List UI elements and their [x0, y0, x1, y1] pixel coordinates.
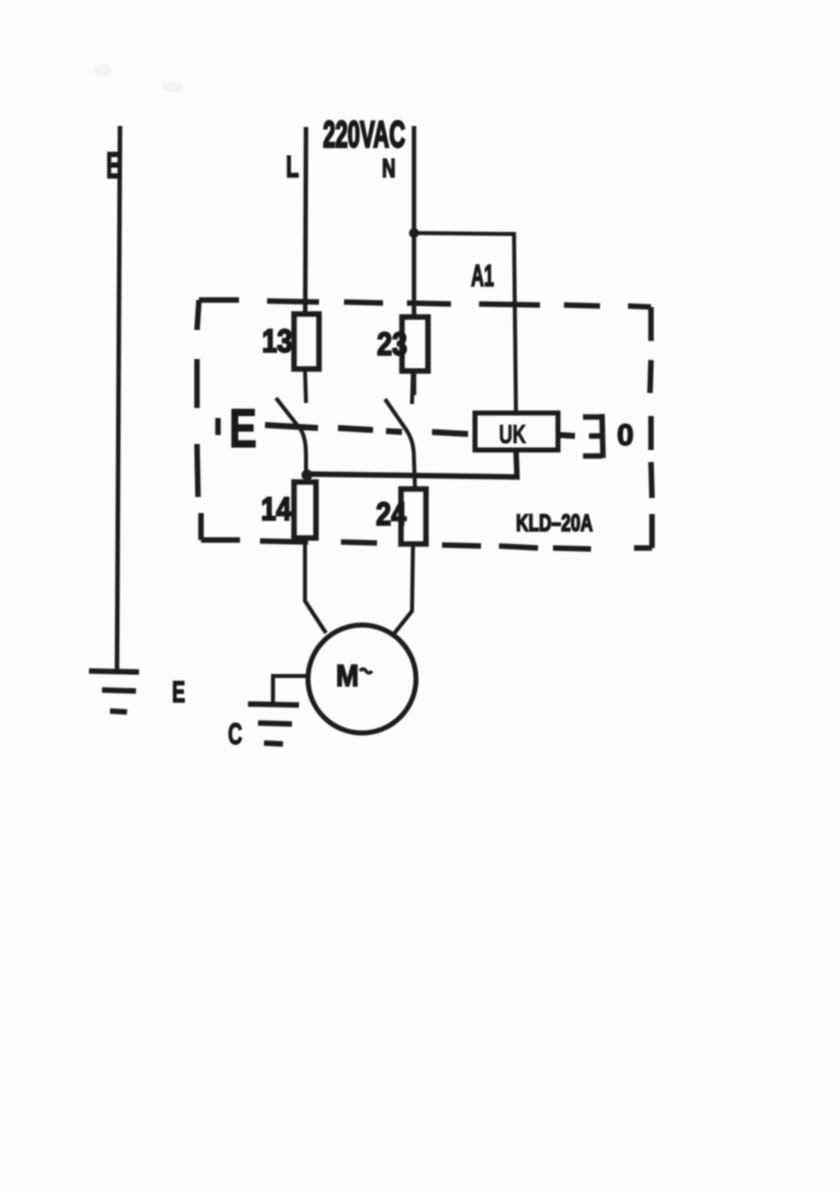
enclosure: KLD-20A dashed box, top edge [199, 300, 651, 307]
linkage dash 5 [560, 435, 575, 436]
enclosure: dashed box, bottom edge [201, 540, 652, 549]
svg-text:E: E [172, 676, 185, 709]
linkage dash 4 [432, 432, 468, 434]
switch pole 2: fixed stub [412, 371, 413, 404]
wire: N junction to coil A1 [414, 233, 516, 414]
enclosure: dashed box, left edge [197, 300, 201, 540]
svg-text:M: M [336, 659, 359, 693]
switch pole 1: fixed stub [305, 369, 306, 403]
svg-text:14: 14 [261, 492, 292, 528]
node: N junction [409, 228, 419, 238]
terminal 24 [401, 489, 426, 544]
tilde mark [360, 669, 372, 673]
svg-text:C: C [228, 718, 242, 751]
wire: motor frame to ground [273, 676, 308, 703]
svg-text:N: N [382, 153, 396, 183]
svg-text:13: 13 [262, 324, 292, 360]
wire: terminal 24 to motor [393, 544, 413, 635]
terminal 13 [294, 314, 319, 369]
wire N (neutral) [412, 126, 417, 395]
ground (motor earth symbol) [248, 704, 299, 744]
svg-text:A1: A1 [471, 259, 494, 293]
actuator tick (linkage start) [215, 418, 221, 435]
terminal bracket (reset contact) [583, 414, 603, 458]
switch pole 1: blade [276, 398, 306, 482]
svg-text:L: L [286, 149, 299, 184]
linkage dash 3 [386, 431, 402, 432]
svg-text:KLD–20A: KLD–20A [516, 510, 593, 536]
ground (left earth symbol) [89, 671, 139, 712]
svg-text:23: 23 [377, 327, 407, 363]
wire: terminal 14 to motor [305, 538, 326, 633]
wire: earth conductor E (left vertical) [117, 126, 120, 671]
svg-text:220VAC: 220VAC [323, 114, 405, 155]
terminal 23 [402, 317, 428, 371]
svg-text:UK: UK [499, 419, 527, 449]
terminal 14 [294, 482, 316, 538]
coil UK [475, 413, 558, 450]
svg-text:E: E [229, 399, 257, 460]
linkage dash 1 [265, 425, 318, 428]
wire: coil return (UK bottom to node) [306, 450, 517, 477]
svg-text:24: 24 [376, 497, 407, 533]
wire L (phase) [305, 127, 306, 369]
node: coil return junction [302, 470, 313, 481]
linkage dash 2 [338, 428, 373, 430]
enclosure: dashed box, right edge [650, 307, 652, 548]
svg-text:E: E [106, 144, 121, 186]
switch pole 2: blade [385, 399, 415, 489]
motor M [308, 625, 416, 733]
svg-text:0: 0 [617, 419, 634, 452]
